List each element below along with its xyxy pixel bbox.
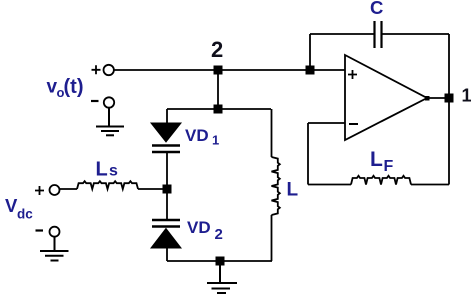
svg-text:dc: dc xyxy=(17,207,33,222)
wire C loop top right xyxy=(381,33,449,35)
svg-text:1: 1 xyxy=(212,133,219,148)
wire VD branch upper xyxy=(166,109,168,124)
wire C loop top left xyxy=(310,33,374,35)
svg-text:L: L xyxy=(287,180,299,201)
Vdc minus sign xyxy=(36,229,44,231)
svg-text:C: C xyxy=(370,0,383,18)
inductor L vertical xyxy=(272,157,280,215)
svg-text:2: 2 xyxy=(211,37,223,62)
varactor diode VD2 triangle xyxy=(151,229,181,249)
vo ground xyxy=(96,108,124,136)
wire C loop right vertical down to node 1 xyxy=(448,34,450,98)
wire LF loop left vertical xyxy=(307,123,309,185)
wire L branch top xyxy=(271,109,273,157)
wire L branch bottom xyxy=(271,215,273,261)
svg-text:L: L xyxy=(96,158,108,180)
svg-text:1: 1 xyxy=(462,86,472,106)
node A junction (top of diode/L branch) xyxy=(214,105,223,114)
wire bottom rail xyxy=(167,260,272,262)
svg-text:(t): (t) xyxy=(64,76,84,98)
node 2 junction xyxy=(214,66,223,75)
svg-text:s: s xyxy=(109,163,118,180)
svg-text:VD: VD xyxy=(187,218,211,237)
ground bottom center xyxy=(207,265,237,293)
Vdc ground xyxy=(40,237,69,261)
Vdc minus terminal circle xyxy=(50,227,60,237)
Vdc plus sign xyxy=(35,186,44,195)
op-amp plus input sign xyxy=(348,70,357,79)
svg-text:2: 2 xyxy=(215,226,223,243)
node junction bottom ground xyxy=(216,257,225,266)
vo minus terminal circle xyxy=(104,97,114,107)
wire inverting input xyxy=(308,122,345,124)
capacitor C plates xyxy=(375,21,382,48)
inductor Ls xyxy=(77,181,138,189)
varactor diode VD1 capacitor bars xyxy=(152,146,180,153)
vo minus sign xyxy=(91,100,99,102)
op-amp minus input sign xyxy=(349,123,358,125)
wire VD2 anode to bottom xyxy=(166,247,168,261)
node at + input / C loop junction xyxy=(306,66,315,75)
wire node A horizontal xyxy=(167,108,271,110)
wire VD1 cathode to middle node xyxy=(166,153,168,221)
wire top main from + terminal to op-amp non-inverting input xyxy=(114,69,345,71)
svg-text:L: L xyxy=(370,148,383,171)
svg-text:F: F xyxy=(384,158,394,175)
op-amp U1 triangle xyxy=(345,55,427,140)
svg-text:VD: VD xyxy=(185,126,209,145)
wire Ls to node xyxy=(138,188,167,190)
vo plus terminal circle xyxy=(104,65,114,75)
wire node2 to node A vertical xyxy=(217,70,219,109)
node junction Ls / varactors xyxy=(163,185,172,194)
wire op-amp output xyxy=(427,97,449,99)
vo plus sign xyxy=(92,65,101,74)
Vdc plus terminal circle xyxy=(50,185,60,195)
inductor LF xyxy=(351,176,411,185)
wire LF loop right vertical up to node 1 xyxy=(448,98,450,185)
op-amp output apex dot xyxy=(425,96,430,101)
wire LF loop bottom right xyxy=(411,184,449,186)
varactor diode VD1 triangle xyxy=(151,123,181,142)
node 1 junction (op-amp output) xyxy=(445,94,454,103)
wire LF loop bottom left xyxy=(308,184,351,186)
varactor diode VD2 capacitor bars xyxy=(152,220,180,227)
wire Ls to terminal xyxy=(60,188,77,190)
wire C loop left vertical xyxy=(309,34,311,70)
